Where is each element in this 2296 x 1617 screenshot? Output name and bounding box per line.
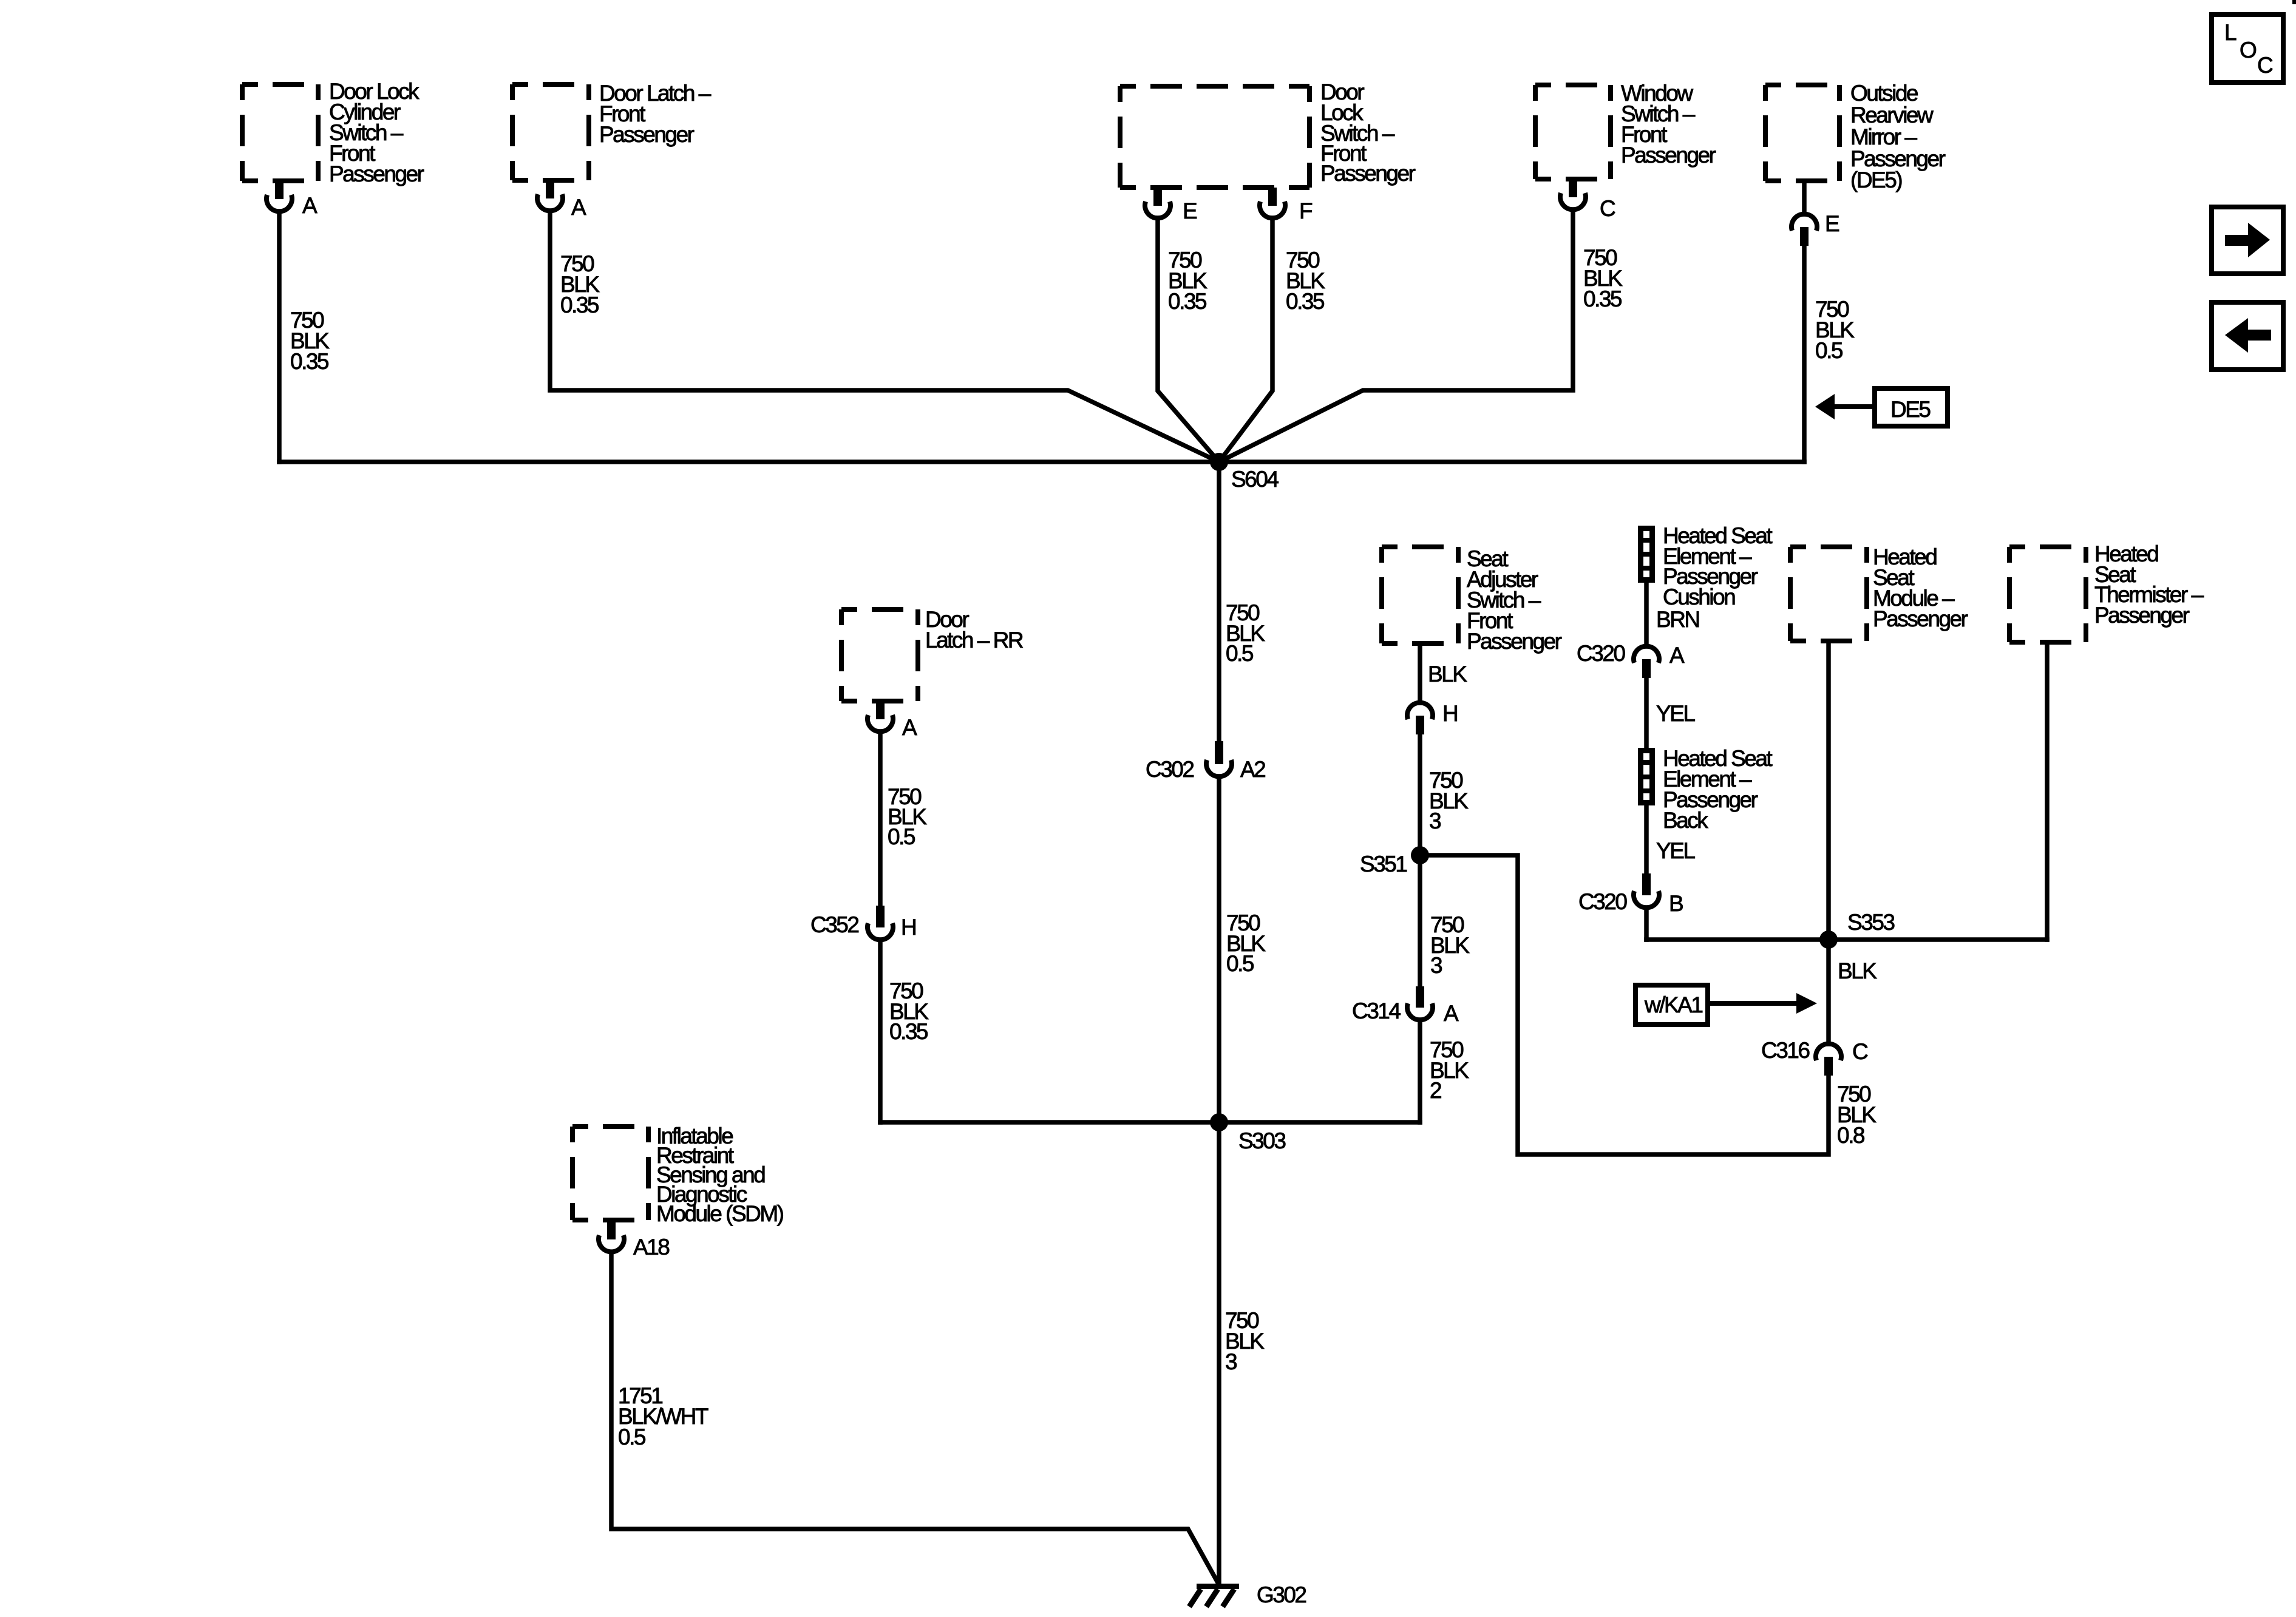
wire from mirror box to connector E xyxy=(1802,181,1807,214)
connector pin H of Seat Adjuster Switch xyxy=(1407,701,1457,734)
svg-text:S303: S303 xyxy=(1238,1128,1285,1153)
svg-text:F: F xyxy=(1299,198,1313,223)
svg-text:A: A xyxy=(1669,643,1685,668)
label A2 xyxy=(1240,757,1265,782)
svg-text:G302: G302 xyxy=(1257,1582,1306,1607)
label: Inflatable Restraint SDM xyxy=(656,1124,784,1226)
wire 750 BLK 0.35 from Door Latch A to S604 xyxy=(550,211,1219,462)
svg-text:Module (SDM): Module (SDM) xyxy=(656,1201,784,1226)
connector pin A of Door Latch Front Passenger xyxy=(537,180,586,220)
wire label 750 BLK 0.35 (pin E) xyxy=(1168,248,1207,314)
label: Door Lock Switch - Front Passenger xyxy=(1320,80,1416,186)
legend box: right arrow xyxy=(2212,207,2283,274)
svg-text:(DE5): (DE5) xyxy=(1850,168,1902,192)
inline connector C352 pin H xyxy=(868,906,893,940)
svg-text:H: H xyxy=(901,915,915,940)
svg-text:0.5: 0.5 xyxy=(1226,951,1254,976)
wire BLK from S353 to C316 xyxy=(1826,940,1831,1044)
svg-text:Passenger: Passenger xyxy=(1320,161,1416,186)
page corner mark xyxy=(2292,0,2296,4)
connector pin A18 of SDM xyxy=(599,1220,669,1259)
ground G302 xyxy=(1189,1582,1306,1607)
svg-text:C352: C352 xyxy=(810,912,858,937)
svg-text:A: A xyxy=(302,193,318,218)
component box: Outside Rearview Mirror - Passenger (DE5) xyxy=(1765,85,1839,181)
wire 750 BLK 0.5 from Door Latch RR to C352 xyxy=(878,731,883,906)
wire from Heated Seat Module to S353 xyxy=(1826,641,1831,940)
svg-text:A: A xyxy=(1444,1001,1459,1026)
label: Seat Adjuster Switch - Front Passenger xyxy=(1467,546,1562,654)
svg-text:0.35: 0.35 xyxy=(1168,289,1207,314)
svg-text:S353: S353 xyxy=(1847,910,1894,935)
svg-text:Rearview: Rearview xyxy=(1850,103,1934,127)
label C320 (B) xyxy=(1578,889,1627,914)
svg-text:C320: C320 xyxy=(1577,641,1625,666)
svg-text:O: O xyxy=(2240,38,2257,63)
svg-text:3: 3 xyxy=(1429,808,1441,833)
wire label BRN xyxy=(1656,607,1699,632)
label: Door Latch - Front Passenger xyxy=(599,81,712,147)
wire from Heated Seat Thermister to S353 bar xyxy=(2045,642,2050,940)
heated seat element - passenger cushion (symbol) xyxy=(1638,529,1655,580)
svg-text:B: B xyxy=(1669,891,1683,916)
heated seat element - passenger back (symbol) xyxy=(1638,751,1655,803)
svg-text:A: A xyxy=(571,195,586,220)
label C (C316) xyxy=(1852,1039,1868,1064)
svg-text:0.35: 0.35 xyxy=(560,293,599,317)
connector pin E of Outside Rearview Mirror xyxy=(1792,211,1839,246)
svg-text:S351: S351 xyxy=(1360,852,1407,876)
svg-text:BLK: BLK xyxy=(1838,958,1877,983)
wire label YEL (upper) xyxy=(1656,701,1695,726)
wire from S351 around to C316 branch xyxy=(1420,855,1829,1154)
svg-text:Passenger: Passenger xyxy=(1467,629,1562,654)
wire label BLK (below S353) xyxy=(1838,958,1877,983)
svg-text:0.5: 0.5 xyxy=(1226,641,1254,666)
wire label 750 BLK 0.35 (cylinder switch) xyxy=(290,308,330,374)
svg-text:Passenger: Passenger xyxy=(329,161,424,186)
wire 750 BLK 3 from S303 to ground G302 xyxy=(1217,1122,1221,1586)
splice S604 xyxy=(1210,453,1228,471)
splice S351 xyxy=(1411,846,1429,864)
wire 750 BLK 0.35 from Door Lock Cylinder Switch A down xyxy=(277,211,282,462)
svg-text:0.35: 0.35 xyxy=(889,1019,928,1044)
wire label YEL (lower) xyxy=(1656,838,1695,863)
component box: Door Lock Switch - Front Passenger xyxy=(1120,86,1309,188)
svg-text:Passenger: Passenger xyxy=(2094,603,2190,628)
label S353 xyxy=(1847,910,1894,935)
label: Door Lock Cylinder Switch - Front Passenger xyxy=(329,79,424,186)
wire 750 BLK 3 from S351 to C314 xyxy=(1418,855,1422,986)
svg-text:Outside: Outside xyxy=(1850,81,1918,106)
wire YEL from back element to C320 B xyxy=(1644,805,1649,873)
connector pin A of Door Latch RR xyxy=(868,701,917,740)
svg-text:0.5: 0.5 xyxy=(1815,338,1843,363)
wire 750 BLK 0.35 from C352 to S303 xyxy=(878,940,883,1122)
svg-text:YEL: YEL xyxy=(1656,838,1695,863)
svg-text:DE5: DE5 xyxy=(1890,397,1931,422)
wire label 750 BLK 0.35 (pin F) xyxy=(1286,248,1325,314)
svg-text:0.35: 0.35 xyxy=(290,349,329,374)
label C316 xyxy=(1761,1038,1809,1063)
inline connector C302 pin A2 xyxy=(1206,741,1232,776)
inline connector C316 pin C xyxy=(1816,1044,1841,1076)
svg-text:0.35: 0.35 xyxy=(1286,289,1325,314)
horizontal wire through splice S353 xyxy=(1646,937,2047,942)
label S303 xyxy=(1238,1128,1285,1153)
connector pin A of Door Lock Cylinder Switch xyxy=(267,181,318,218)
legend box: left arrow xyxy=(2212,302,2283,370)
wire BLK from Seat Adjuster Switch to connector H xyxy=(1418,643,1422,703)
connector pin E of Door Lock Switch xyxy=(1145,188,1197,223)
wire 750 BLK 0.35 from pin E to S604 xyxy=(1158,218,1219,462)
wire label 750 BLK 0.5 (above C302) xyxy=(1226,600,1265,666)
label C320 (A) xyxy=(1577,641,1625,666)
wire 750 BLK 0.5 from S604 to C302 xyxy=(1217,462,1221,741)
svg-text:YEL: YEL xyxy=(1656,701,1695,726)
connector pin C of Window Switch xyxy=(1560,179,1615,221)
svg-text:A: A xyxy=(902,715,917,740)
label: Heated Seat Thermister - Passenger xyxy=(2094,541,2204,628)
svg-text:Latch – RR: Latch – RR xyxy=(925,628,1023,653)
svg-text:BLK: BLK xyxy=(1428,662,1467,686)
main bus wire into splice S604 xyxy=(279,459,1804,464)
component box: Window Switch - Front Passenger xyxy=(1535,85,1611,179)
label C302 xyxy=(1146,757,1194,782)
component box: Heated Seat Module - Passenger xyxy=(1790,547,1867,641)
wire label 750 BLK 0.8 xyxy=(1837,1082,1877,1148)
component box: Door Latch - Front Passenger xyxy=(512,84,589,180)
wire label 750 BLK 0.35 (window switch) xyxy=(1583,245,1623,311)
label: Heated Seat Element - Passenger Cushion xyxy=(1663,523,1773,609)
DE5 circuit reference box with left arrow xyxy=(1815,388,1948,426)
wire 750 BLK 0.35 from Window Switch C to S604 xyxy=(1219,209,1573,462)
label: Outside Rearview Mirror - Passenger (DE5) xyxy=(1850,81,1946,192)
svg-text:w/KA1: w/KA1 xyxy=(1644,992,1702,1017)
label: Heated Seat Element - Passenger Back xyxy=(1663,746,1773,833)
svg-text:0.5: 0.5 xyxy=(618,1425,646,1449)
label B (C320) xyxy=(1669,891,1683,916)
component box: Door Latch - RR xyxy=(841,609,918,701)
connector pin F of Door Lock Switch xyxy=(1260,188,1313,223)
component box: Door Lock Cylinder Switch - Front Passenger xyxy=(242,84,318,181)
wire label 750 BLK 0.35 (door latch) xyxy=(560,251,600,317)
label: Door Latch - RR xyxy=(925,607,1023,653)
component box: Seat Adjuster Switch - Front Passenger xyxy=(1382,547,1458,643)
component box: Heated Seat Thermister - Passenger xyxy=(2009,547,2086,642)
label S351 xyxy=(1360,852,1407,876)
wire label 750 BLK 3 (to ground) xyxy=(1225,1308,1265,1374)
wire 750 BLK 3 from H to S351 xyxy=(1418,734,1422,855)
svg-text:L: L xyxy=(2224,20,2237,45)
wire label 750 BLK 0.5 (door latch RR) xyxy=(888,784,927,849)
label C314 xyxy=(1352,998,1401,1023)
svg-text:C: C xyxy=(1852,1039,1868,1064)
svg-text:Passenger: Passenger xyxy=(1873,606,1968,631)
svg-text:C: C xyxy=(2257,53,2273,78)
wire 750 BLK 0.5 from mirror E to bus xyxy=(1802,246,1807,462)
svg-text:Back: Back xyxy=(1663,808,1708,833)
svg-text:E: E xyxy=(1183,198,1197,223)
svg-text:A18: A18 xyxy=(633,1235,669,1259)
svg-text:A2: A2 xyxy=(1240,757,1265,782)
svg-text:0.5: 0.5 xyxy=(888,824,915,849)
svg-text:C320: C320 xyxy=(1578,889,1627,914)
inline connector C314 pin A xyxy=(1407,986,1433,1020)
wire 750 BLK 0.35 from pin F to S604 xyxy=(1219,218,1272,462)
label A (C314) xyxy=(1444,1001,1459,1026)
splice S303 xyxy=(1210,1113,1228,1131)
svg-text:2: 2 xyxy=(1430,1078,1441,1103)
svg-text:0.8: 0.8 xyxy=(1837,1123,1864,1148)
inline connector C320 pin A xyxy=(1634,646,1659,678)
label: Heated Seat Module - Passenger xyxy=(1873,544,1968,631)
w/KA1 circuit reference box with right arrow xyxy=(1635,985,1817,1025)
svg-text:E: E xyxy=(1825,211,1839,236)
horizontal wire into splice S303 xyxy=(880,1120,1420,1125)
svg-text:C316: C316 xyxy=(1761,1038,1809,1063)
svg-text:Mirror –: Mirror – xyxy=(1850,124,1917,149)
label H (C352) xyxy=(901,915,915,940)
svg-text:S604: S604 xyxy=(1231,467,1279,492)
wire label 750 BLK 0.35 (below C352) xyxy=(889,978,929,1044)
wire label 750 BLK 3 (below S351) xyxy=(1430,912,1470,978)
label S604 xyxy=(1231,467,1279,492)
label A (C320) xyxy=(1669,643,1685,668)
wire 750 BLK 0.5 from C302 to S303 xyxy=(1217,776,1221,1122)
svg-text:C: C xyxy=(1600,196,1615,221)
svg-text:3: 3 xyxy=(1225,1349,1237,1374)
wire from C320 B to S353 bar xyxy=(1644,907,1649,940)
wire YEL from C320 A to back element xyxy=(1644,678,1649,748)
svg-text:C302: C302 xyxy=(1146,757,1194,782)
svg-text:0.35: 0.35 xyxy=(1583,286,1622,311)
wire label 750 BLK 0.5 (below C302) xyxy=(1226,910,1266,976)
svg-text:C314: C314 xyxy=(1352,998,1401,1023)
svg-text:BRN: BRN xyxy=(1656,607,1699,632)
LOC legend box xyxy=(2212,15,2283,83)
wire 750 BLK 2 from C314 to S303 xyxy=(1418,1020,1422,1122)
label: Window Switch - Front Passenger xyxy=(1621,81,1716,168)
wire label 750 BLK 0.5 (mirror) xyxy=(1815,297,1855,363)
svg-text:H: H xyxy=(1442,701,1457,726)
wire label 750 BLK 3 (above S351) xyxy=(1429,768,1469,833)
svg-text:3: 3 xyxy=(1430,953,1442,978)
svg-text:Cushion: Cushion xyxy=(1663,585,1735,609)
wire 1751 BLK/WHT 0.5 from SDM A18 to ground xyxy=(611,1253,1219,1585)
component box: Inflatable Restraint Sensing and Diagnostic Module (SDM) xyxy=(572,1127,648,1220)
svg-text:Passenger: Passenger xyxy=(1621,143,1716,168)
splice S353 xyxy=(1819,931,1838,949)
label C352 xyxy=(810,912,858,937)
wire BRN from cushion element to C320 A xyxy=(1644,583,1649,646)
svg-text:Passenger: Passenger xyxy=(599,122,695,147)
wire label 750 BLK 2 xyxy=(1430,1037,1469,1103)
inline connector C320 pin B xyxy=(1634,873,1659,907)
wire label 1751 BLK/WHT 0.5 xyxy=(618,1383,708,1449)
wire label BLK (seat adjuster) xyxy=(1428,662,1467,686)
